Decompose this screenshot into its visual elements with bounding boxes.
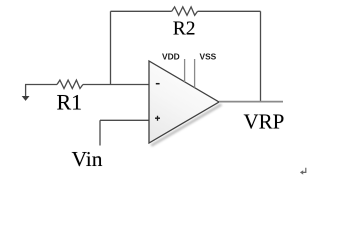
wire: non-inverting input horizontal (100, 119, 149, 121)
op-amp U1 body (149, 61, 219, 143)
svg-text:Vin: Vin (72, 147, 103, 171)
op-amp non-inverting marker (155, 116, 160, 121)
svg-text:R2: R2 (173, 19, 196, 40)
wire: input segment from R1 to inverting pin (through feedback node) (83, 84, 149, 86)
paragraph return mark (300, 168, 306, 175)
svg-text:R1: R1 (57, 90, 83, 115)
resistor R1 (57, 80, 83, 88)
input terminal arrow (down) (25, 85, 27, 97)
pin VSS line (194, 59, 196, 88)
resistor R2 (172, 7, 198, 15)
svg-text:VRP: VRP (244, 110, 285, 134)
svg-text:VDD: VDD (162, 52, 180, 62)
wire: feedback right vertical down to output (260, 11, 262, 101)
op-amp U1 shadow (151, 105, 221, 146)
wire: input left segment to R1 (25, 84, 57, 86)
output pin wire (219, 101, 283, 103)
op-amp inverting marker (156, 83, 160, 85)
wire: top rail right segment from R2 (198, 10, 261, 12)
wire: Vin vertical stub (99, 120, 101, 145)
wire: feedback top-left vertical (node at inverting input up to top rail) (110, 11, 112, 84)
wire: top rail left segment to R2 (111, 10, 172, 12)
svg-text:VSS: VSS (200, 52, 217, 62)
pin VDD line (184, 59, 186, 82)
